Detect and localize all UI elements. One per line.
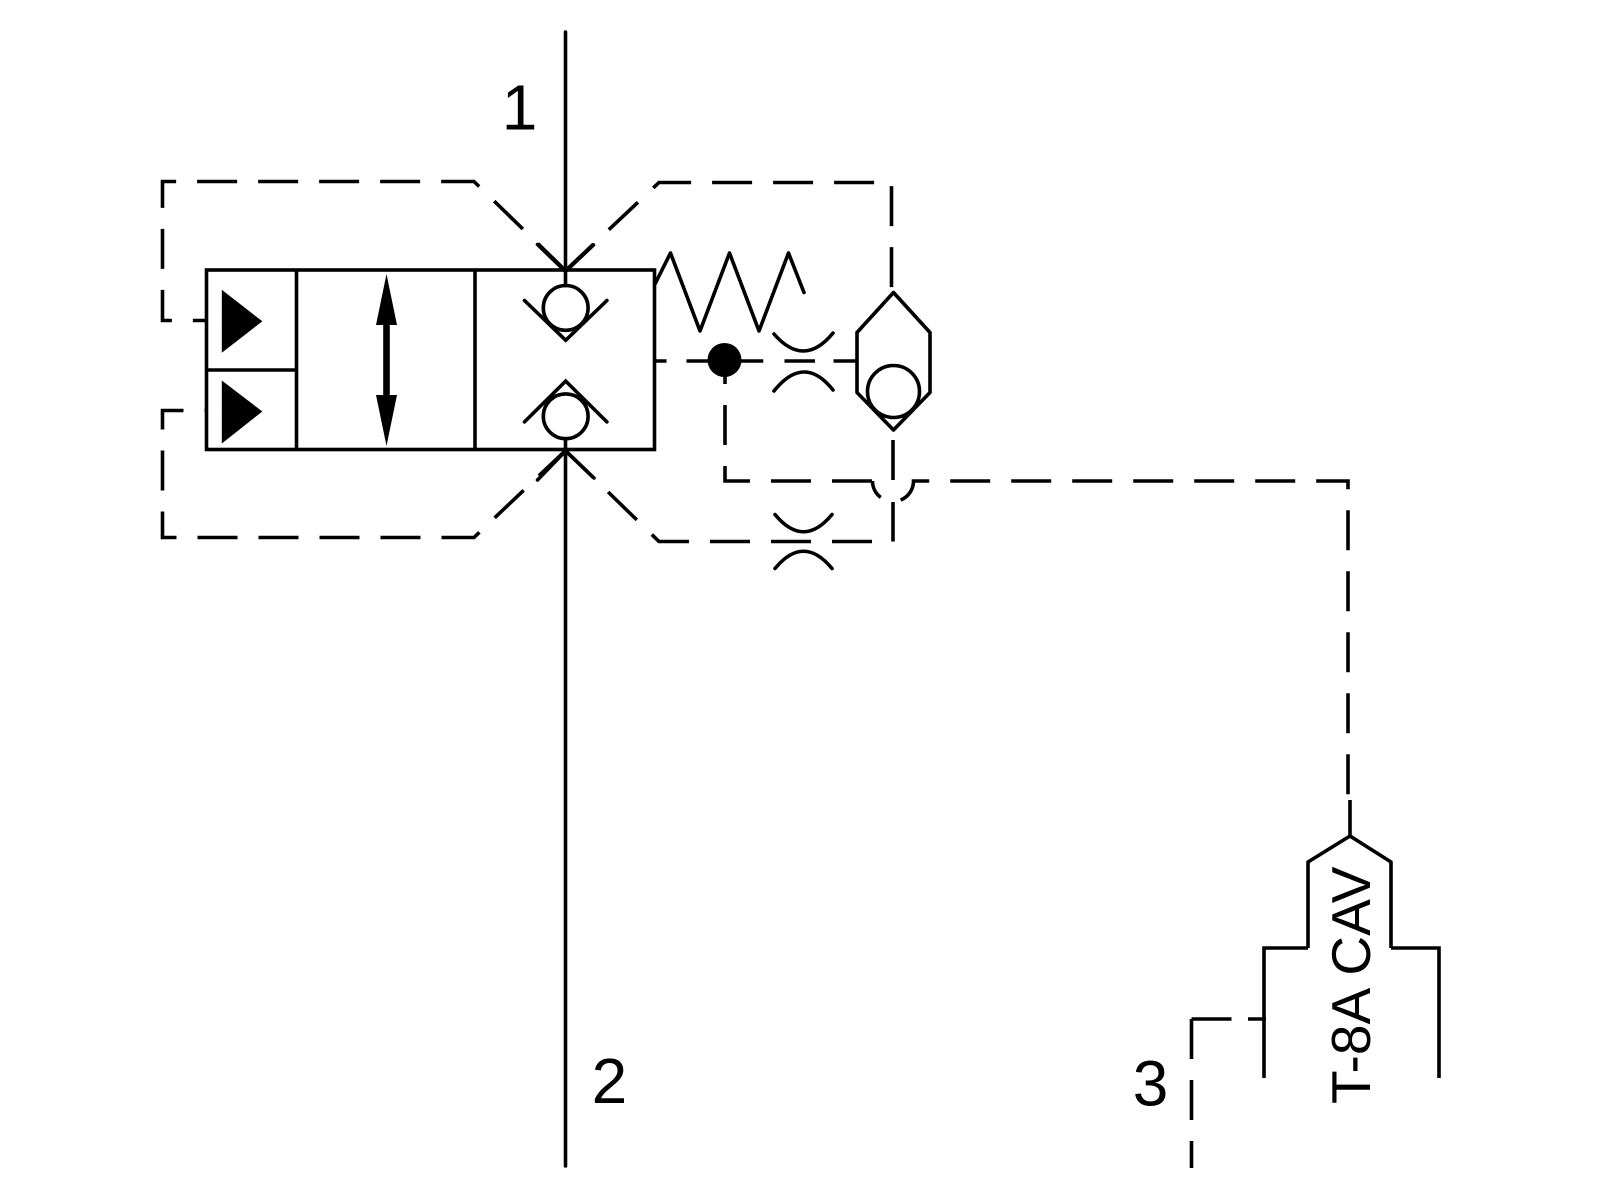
orifice 1 top arc <box>774 333 833 351</box>
right enclosure top <box>566 183 892 293</box>
check ball bottom seat <box>525 381 607 422</box>
cavity nose <box>1308 836 1391 948</box>
orifice 1 bottom arc <box>774 372 833 391</box>
cavity right shoulder <box>1391 948 1439 1078</box>
port line 2 <box>564 439 568 1166</box>
port line 1 <box>564 32 568 286</box>
poppet outlet dash lower <box>891 502 895 542</box>
check ball top circle <box>543 286 588 331</box>
left enclosure top <box>163 182 566 321</box>
port 1 arrowhead <box>538 245 594 272</box>
right enclosure bottom <box>566 451 893 542</box>
check ball bottom circle <box>543 394 588 439</box>
svg-text:3: 3 <box>1133 1048 1169 1120</box>
poppet outlet dash upper <box>891 430 895 481</box>
svg-text:1: 1 <box>502 72 538 144</box>
check ball top seat <box>525 301 607 341</box>
pilot box divider <box>207 368 297 372</box>
spring <box>655 253 805 331</box>
cavity left shoulder <box>1264 948 1308 1078</box>
valve divider left <box>295 270 299 450</box>
pilot triangle bottom <box>222 381 262 444</box>
left enclosure bottom <box>163 411 566 538</box>
stroke arrow head down <box>376 395 397 446</box>
pilot line hop and run to cavity <box>873 481 1349 800</box>
junction dot <box>708 343 742 377</box>
cavity port 3 tick <box>1248 1017 1266 1021</box>
stroke arrow head up <box>376 274 397 325</box>
pilot triangle top <box>222 290 262 353</box>
check valve poppet ball <box>868 366 920 418</box>
check valve poppet body <box>857 293 930 431</box>
valve body outer rect <box>207 270 655 450</box>
cavity stub <box>1348 800 1352 836</box>
valve divider right <box>473 270 477 450</box>
pilot line valve to poppet <box>655 359 858 363</box>
stroke arrow shaft <box>383 322 390 398</box>
port 2 arrowhead <box>538 451 595 480</box>
orifice 2 bottom arc <box>775 551 832 568</box>
svg-text:T-8A CAV: T-8A CAV <box>1320 866 1382 1104</box>
svg-text:2: 2 <box>592 1045 628 1117</box>
orifice 2 top arc <box>775 515 832 532</box>
port 3 line vertical <box>1190 1019 1194 1168</box>
pilot line dot to cavity port <box>725 360 873 482</box>
port 3 line horizontal <box>1192 1017 1234 1021</box>
